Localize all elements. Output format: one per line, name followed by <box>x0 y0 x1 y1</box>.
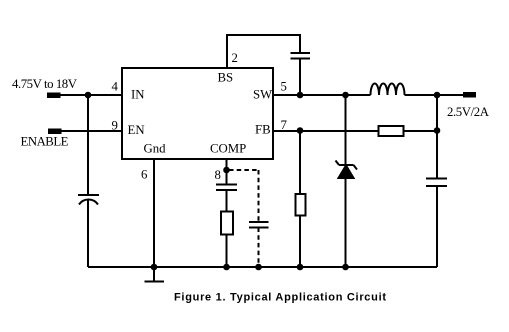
svg-text:COMP: COMP <box>210 142 246 156</box>
wire R3 to ground rail <box>226 235 228 268</box>
wire input capacitor to ground rail <box>87 200 89 267</box>
svg-text:5: 5 <box>281 80 287 94</box>
svg-text:2: 2 <box>232 51 238 65</box>
node dashed ground junction <box>255 264 262 271</box>
node SW diode junction <box>342 92 349 99</box>
resistor R3 <box>221 212 233 235</box>
wire output capacitor to ground rail <box>436 186 438 267</box>
svg-text:4.75V to 18V: 4.75V to 18V <box>12 77 78 91</box>
wire input to capacitor <box>87 95 89 195</box>
node output FB junction <box>434 127 441 134</box>
node COMP junction <box>223 167 230 174</box>
wire output column upper <box>436 95 438 179</box>
wire IN <box>61 94 123 96</box>
ground symbol <box>145 267 165 282</box>
svg-text:8: 8 <box>215 168 221 182</box>
node COMP ground junction <box>223 264 230 271</box>
svg-text:SW: SW <box>253 88 273 102</box>
wire dashed COMP horizontal <box>229 169 259 171</box>
svg-text:Figure 1. Typical Application: Figure 1. Typical Application Circuit <box>174 292 386 304</box>
node FB junction <box>297 127 304 134</box>
svg-text:IN: IN <box>131 88 145 102</box>
capacitor output <box>426 179 447 187</box>
wire BS bootstrap loop <box>227 35 300 68</box>
wire diode branch upper <box>345 95 347 165</box>
inductor L1 <box>371 84 405 95</box>
wire COMP pin <box>226 159 228 185</box>
node Gnd junction <box>151 264 158 271</box>
wire dashed vertical upper <box>258 170 260 222</box>
node SW bootstrap junction <box>297 92 304 99</box>
svg-text:ENABLE: ENABLE <box>21 135 69 149</box>
capacitor input electrolytic <box>78 195 99 205</box>
wire diode to ground rail <box>345 178 347 267</box>
svg-text:Gnd: Gnd <box>144 142 167 156</box>
output terminal <box>463 92 476 98</box>
resistor R1 <box>379 126 404 136</box>
wire FB <box>273 130 379 132</box>
wire R1 to output node <box>404 130 438 132</box>
diode D1 schottky <box>336 161 358 179</box>
input terminal <box>47 93 61 99</box>
capacitor bootstrap <box>291 53 311 59</box>
svg-text:6: 6 <box>141 168 148 182</box>
wire inductor to output <box>405 94 464 96</box>
wire BS cap to SW node <box>299 59 301 96</box>
wire R2 to ground rail <box>299 216 301 268</box>
wire R2 branch <box>299 131 301 194</box>
svg-text:FB: FB <box>255 123 271 137</box>
wire dashed vertical lower <box>258 228 260 268</box>
node output junction <box>434 92 441 99</box>
resistor R2 <box>296 194 306 216</box>
capacitor COMP <box>216 185 237 191</box>
wire SW <box>273 94 371 96</box>
svg-text:7: 7 <box>281 118 288 132</box>
svg-text:4: 4 <box>112 80 119 94</box>
IC U1 buck converter <box>122 68 273 159</box>
svg-text:EN: EN <box>128 123 145 137</box>
capacitor optional dashed branch <box>249 222 269 228</box>
node diode ground junction <box>342 264 349 271</box>
wire COMP cap to R3 <box>226 190 228 212</box>
wire Gnd pin <box>153 159 155 267</box>
wire EN <box>62 130 123 132</box>
svg-text:2.5V/2A: 2.5V/2A <box>447 105 490 119</box>
ground rail <box>88 266 437 268</box>
node R2 ground junction <box>297 264 304 271</box>
node input junction <box>85 92 92 99</box>
svg-text:BS: BS <box>218 71 234 85</box>
enable terminal <box>48 129 62 135</box>
